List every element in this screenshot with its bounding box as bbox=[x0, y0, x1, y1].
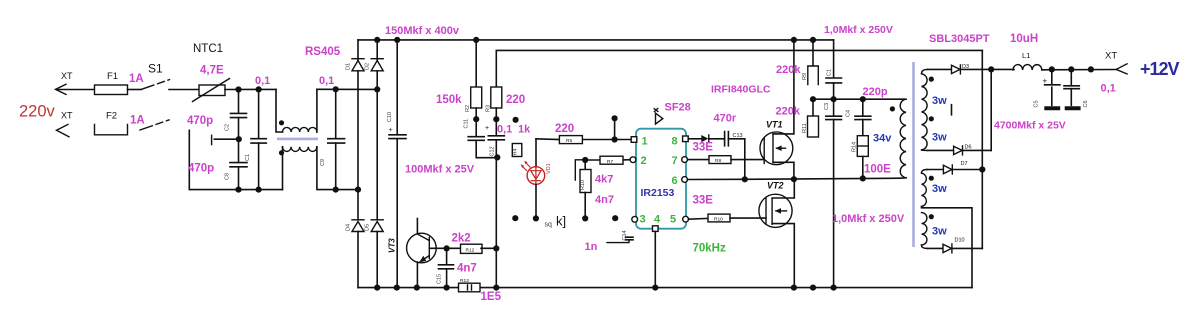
svg-text:+: + bbox=[389, 127, 393, 134]
svg-text:SBL3045PT: SBL3045PT bbox=[929, 33, 990, 45]
svg-text:1,0Mkf x 250V: 1,0Mkf x 250V bbox=[824, 24, 893, 36]
connector XT lower arrow bbox=[57, 111, 74, 137]
label 33E lower bbox=[693, 195, 714, 207]
svg-text:XT: XT bbox=[1105, 51, 1117, 62]
svg-text:SF28: SF28 bbox=[665, 102, 691, 114]
label 100Mkf x 25V bbox=[405, 164, 475, 176]
inductor L1 10uH bbox=[1010, 33, 1116, 70]
svg-text:C9: C9 bbox=[320, 159, 326, 166]
svg-text:C4: C4 bbox=[846, 110, 852, 117]
svg-text:C3: C3 bbox=[824, 103, 830, 110]
svg-text:C12: C12 bbox=[490, 146, 496, 156]
resistor R13 1E5 on rail bbox=[459, 278, 502, 303]
choke core bbox=[277, 138, 318, 141]
svg-text:C10: C10 bbox=[387, 112, 393, 122]
cap midpoint node wire bbox=[810, 96, 906, 102]
IC IR2153 body bbox=[636, 129, 686, 229]
wire NTC1 to filter node bbox=[225, 88, 276, 90]
svg-text:0,1: 0,1 bbox=[497, 124, 512, 136]
svg-text:2k2: 2k2 bbox=[452, 233, 471, 245]
diode D3 bbox=[928, 64, 1015, 74]
capacitor C14 1n bbox=[585, 230, 634, 253]
svg-text:C1: C1 bbox=[245, 154, 251, 161]
svg-text:+: + bbox=[1043, 77, 1048, 86]
svg-text:100E: 100E bbox=[864, 164, 891, 176]
diode D7 bbox=[927, 161, 985, 174]
capacitor C6 0,1 bbox=[1064, 70, 1116, 109]
svg-text:8: 8 bbox=[672, 136, 678, 148]
transformer primary winding bbox=[890, 99, 906, 178]
Vcc wire to R5 and pin1 bbox=[536, 118, 632, 142]
label 150Mkf x 400v bbox=[385, 25, 460, 37]
node dot top of C1 input bbox=[256, 86, 262, 92]
svg-text:k]: k] bbox=[556, 214, 566, 229]
svg-text:IRFI840GLC: IRFI840GLC bbox=[711, 84, 771, 96]
label 4700Mkf x 25V bbox=[994, 120, 1066, 132]
svg-text:4k7: 4k7 bbox=[595, 174, 613, 186]
IC pin4 ground wire bbox=[652, 231, 658, 290]
svg-text:1E5: 1E5 bbox=[481, 291, 502, 303]
svg-text:1,0Mkf x 250V: 1,0Mkf x 250V bbox=[832, 213, 905, 225]
IC pads bbox=[630, 136, 688, 231]
svg-text:1k: 1k bbox=[518, 124, 531, 136]
transformer secondary winding B lower bbox=[921, 213, 947, 249]
svg-text:D5: D5 bbox=[365, 224, 371, 231]
svg-text:R7: R7 bbox=[607, 159, 613, 165]
capacitor C3 1,0Mkf lower bbox=[824, 99, 905, 291]
MOSFET VT2 bbox=[759, 179, 797, 291]
svg-text:S1: S1 bbox=[148, 62, 163, 76]
svg-text:C15: C15 bbox=[437, 274, 443, 284]
svg-text:+12V: +12V bbox=[1140, 59, 1180, 79]
wire F1 to S1 bbox=[128, 89, 142, 91]
svg-text:150k: 150k bbox=[436, 94, 462, 106]
diode SF28 symbol bbox=[654, 102, 691, 125]
secondary B center tap to bottom rail bbox=[922, 207, 973, 288]
transformer secondary winding B upper bbox=[921, 170, 947, 207]
svg-text:150Mkf x 400v: 150Mkf x 400v bbox=[385, 25, 460, 37]
svg-text:R2: R2 bbox=[465, 105, 471, 112]
wire C12 to bottom rail bbox=[493, 248, 499, 290]
node dot top of C2 bbox=[235, 86, 241, 92]
svg-text:R9: R9 bbox=[802, 73, 808, 80]
svg-text:C1: C1 bbox=[827, 69, 833, 76]
svg-text:220: 220 bbox=[555, 123, 574, 135]
label 33E upper bbox=[693, 142, 714, 154]
svg-text:1A: 1A bbox=[129, 73, 144, 85]
wire choke top to bridge bbox=[317, 88, 377, 90]
label 0,1 1k bbox=[497, 124, 531, 136]
IC pin numbers bbox=[640, 136, 678, 226]
svg-text:XT: XT bbox=[61, 111, 73, 121]
svg-text:34v: 34v bbox=[873, 133, 892, 145]
bridge rectifier column 1 bbox=[346, 40, 365, 220]
capacitor C8 470p bbox=[188, 139, 247, 193]
svg-text:C8: C8 bbox=[225, 173, 231, 180]
svg-text:10uH: 10uH bbox=[1010, 33, 1038, 45]
resistor R4 1k bbox=[512, 144, 522, 157]
svg-text:VT3: VT3 bbox=[388, 238, 397, 253]
svg-text:0,1: 0,1 bbox=[1101, 83, 1116, 95]
svg-text:R8: R8 bbox=[715, 158, 721, 164]
label SBL3045PT bbox=[929, 33, 990, 45]
svg-text:D7: D7 bbox=[961, 161, 968, 167]
svg-text:C13: C13 bbox=[733, 133, 743, 139]
diode D10 bbox=[927, 238, 982, 253]
label 70kHz bbox=[693, 243, 726, 255]
bridge rectifier column 2 bbox=[365, 37, 384, 220]
wire S1 to NTC1 bbox=[169, 89, 199, 91]
transformer core bbox=[912, 62, 915, 247]
bottom floating dots row bbox=[512, 215, 618, 221]
resistor R9 220k bbox=[776, 37, 818, 85]
svg-text:D10: D10 bbox=[955, 238, 965, 244]
neutral vertical wire bbox=[189, 130, 282, 189]
svg-text:0,1: 0,1 bbox=[319, 75, 334, 87]
svg-text:7: 7 bbox=[672, 155, 678, 167]
capacitor C2 470p bbox=[187, 90, 247, 140]
capacitor C15 4n7 bbox=[437, 248, 477, 290]
connector XT upper arrow bbox=[56, 71, 95, 94]
svg-text:100Mkf x 25V: 100Mkf x 25V bbox=[405, 164, 475, 176]
resistor R11g VT2 gate bbox=[689, 214, 767, 222]
resistor R10 4k7 bbox=[575, 160, 614, 219]
svg-text:R11: R11 bbox=[802, 123, 808, 133]
snubber capacitor C4 220p bbox=[846, 86, 888, 136]
connector mark sq k] bbox=[545, 214, 567, 229]
svg-text:C11: C11 bbox=[464, 119, 470, 129]
resistor R12 2k2 bbox=[452, 233, 500, 254]
svg-text:470p: 470p bbox=[188, 163, 214, 175]
transformer secondary winding A bbox=[921, 69, 951, 150]
svg-text:3w: 3w bbox=[932, 95, 947, 107]
svg-text:F2: F2 bbox=[106, 111, 117, 122]
diode D6 bbox=[927, 69, 991, 154]
MOSFET VT1 bbox=[760, 37, 797, 179]
svg-text:D1: D1 bbox=[346, 63, 352, 70]
output node dots bbox=[1049, 66, 1094, 72]
capacitor C13 470r bbox=[709, 113, 745, 180]
svg-text:VT2: VT2 bbox=[767, 180, 784, 190]
svg-text:RS405: RS405 bbox=[305, 46, 341, 58]
floating node dots Vcc row bbox=[473, 115, 618, 123]
resistor R11 220k bbox=[776, 99, 819, 291]
LED VD1 bbox=[521, 139, 552, 219]
switch S1 pole 1 bbox=[142, 62, 170, 90]
DC top rail bbox=[358, 39, 834, 41]
aux supply wire from R3 top bbox=[496, 50, 982, 87]
svg-text:70kHz: 70kHz bbox=[693, 243, 726, 255]
svg-text:C6: C6 bbox=[1083, 100, 1089, 107]
svg-text:R13: R13 bbox=[460, 278, 469, 284]
svg-text:R3: R3 bbox=[486, 105, 492, 112]
label +12V bbox=[1140, 59, 1180, 79]
svg-text:220p: 220p bbox=[863, 86, 888, 98]
svg-text:220: 220 bbox=[506, 94, 525, 106]
svg-text:33E: 33E bbox=[693, 142, 714, 154]
bridge diode D4 lower col1 bbox=[346, 220, 365, 288]
common mode choke L winding bottom bbox=[279, 147, 358, 190]
svg-text:4,7E: 4,7E bbox=[200, 65, 224, 77]
resistor R5 220 bbox=[555, 123, 582, 144]
svg-text:VT1: VT1 bbox=[766, 120, 783, 130]
capacitor C9 0,1 bbox=[319, 75, 345, 193]
svg-text:4: 4 bbox=[654, 214, 661, 226]
svg-text:NTC1: NTC1 bbox=[193, 43, 223, 55]
bridge diode D5 lower col2 bbox=[365, 220, 384, 291]
svg-text:3: 3 bbox=[640, 214, 646, 226]
svg-text:4700Mkf x 25V: 4700Mkf x 25V bbox=[994, 120, 1066, 132]
wire VT3 base to node bbox=[429, 245, 459, 251]
svg-text:XT: XT bbox=[61, 71, 73, 81]
thermistor NTC1 bbox=[193, 43, 230, 102]
svg-text:220v: 220v bbox=[19, 103, 56, 121]
svg-text:0,1: 0,1 bbox=[255, 75, 270, 87]
resistor R8 bbox=[688, 156, 765, 164]
svg-text:R4: R4 bbox=[513, 148, 519, 155]
svg-text:6: 6 bbox=[672, 175, 678, 187]
resistor R7 bbox=[582, 156, 630, 165]
common mode choke L winding top bbox=[276, 89, 317, 132]
svg-text:R12: R12 bbox=[466, 248, 475, 254]
aux rectifier output column bbox=[981, 50, 983, 248]
svg-text:4n7: 4n7 bbox=[595, 194, 614, 206]
switch S1 pole 2 bbox=[140, 120, 169, 130]
svg-text:sq: sq bbox=[545, 222, 553, 229]
capacitor C5 4700Mkf bbox=[1034, 70, 1061, 109]
svg-text:C2: C2 bbox=[225, 124, 231, 131]
svg-text:R5: R5 bbox=[566, 138, 572, 144]
transistor VT3 bbox=[388, 219, 437, 291]
svg-text:2: 2 bbox=[641, 155, 647, 167]
resistor R2 150k bbox=[436, 37, 482, 119]
svg-text:C5: C5 bbox=[1034, 100, 1040, 107]
output connector XT arrow bbox=[1105, 51, 1127, 75]
svg-text:5: 5 bbox=[670, 214, 676, 226]
fuse F1 bbox=[95, 71, 144, 95]
capacitor C10 150Mkf bbox=[387, 37, 406, 291]
svg-text:R10: R10 bbox=[714, 217, 723, 223]
label RS405 bbox=[305, 46, 341, 58]
resistor R3 220 bbox=[486, 87, 526, 119]
svg-text:D2: D2 bbox=[365, 63, 371, 70]
snubber resistor R14 100E bbox=[852, 133, 893, 179]
bridge column1 AC node dot bbox=[355, 187, 361, 193]
svg-text:R14: R14 bbox=[852, 142, 858, 152]
svg-text:1A: 1A bbox=[130, 115, 145, 127]
svg-text:3w: 3w bbox=[932, 183, 947, 195]
svg-text:D4: D4 bbox=[346, 224, 352, 231]
svg-text:C14: C14 bbox=[622, 230, 628, 240]
svg-text:F1: F1 bbox=[107, 71, 118, 82]
svg-text:3w: 3w bbox=[932, 132, 947, 144]
svg-text:220k: 220k bbox=[776, 64, 801, 76]
fuse F2 bbox=[95, 111, 145, 135]
svg-text:33E: 33E bbox=[693, 195, 714, 207]
svg-text:220k: 220k bbox=[776, 106, 801, 118]
bottom DC rail bbox=[358, 287, 972, 289]
capacitor C12 100Mkf bbox=[485, 119, 504, 248]
svg-text:3w: 3w bbox=[932, 226, 947, 238]
svg-text:1n: 1n bbox=[585, 241, 598, 253]
label 220v bbox=[19, 103, 56, 121]
capacitor C1 input 0,1 bbox=[245, 75, 270, 193]
VS midpoint rail bbox=[688, 175, 901, 182]
svg-text:VD1: VD1 bbox=[546, 163, 552, 174]
svg-text:R10: R10 bbox=[580, 180, 586, 190]
svg-text:470r: 470r bbox=[714, 113, 737, 125]
svg-text:IR2153: IR2153 bbox=[641, 187, 675, 199]
svg-text:1: 1 bbox=[642, 136, 648, 148]
bootstrap diode on pin8 bbox=[688, 135, 709, 142]
label IRFI840GLC bbox=[711, 84, 771, 96]
chassis tick stub at C2/C8 midpoint bbox=[212, 135, 242, 144]
svg-text:470p: 470p bbox=[187, 115, 213, 127]
capacitor C1 1,0Mkf upper bbox=[824, 24, 893, 99]
svg-text:4n7: 4n7 bbox=[457, 263, 477, 275]
capacitor C11 0,1 bbox=[464, 119, 498, 158]
svg-text:+: + bbox=[485, 125, 489, 132]
svg-text:L1: L1 bbox=[1022, 51, 1030, 60]
